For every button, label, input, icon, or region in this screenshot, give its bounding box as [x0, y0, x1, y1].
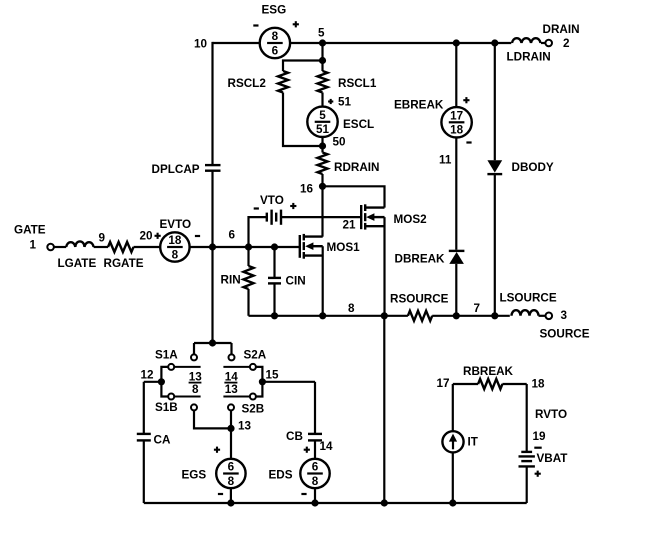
wire node15 down to CB [314, 382, 316, 434]
svg-text:51: 51 [338, 96, 352, 109]
svg-text:CA: CA [154, 434, 171, 447]
junction node 50 [319, 143, 325, 149]
label VBAT [537, 452, 569, 465]
wire RSOURCE to LSOURCE [432, 315, 510, 317]
svg-text:19: 19 [533, 430, 547, 443]
wire RGATE to EVTO [134, 246, 161, 248]
svg-text:RBREAK: RBREAK [463, 365, 514, 378]
node 18 label [532, 378, 546, 391]
wire EBREAK to DBREAK [455, 138, 457, 250]
switch S2B lower contact [228, 404, 234, 410]
junction switch common [209, 340, 215, 346]
wire switch common bar [194, 342, 232, 344]
label CB [286, 430, 303, 443]
wire LGATE to RGATE [94, 246, 108, 248]
wire node8 rail [249, 315, 408, 317]
minus of EGS [218, 493, 223, 495]
current source IT [442, 431, 463, 452]
svg-text:MOS1: MOS1 [327, 241, 361, 254]
junction rail-it [450, 500, 456, 506]
svg-text:LDRAIN: LDRAIN [507, 51, 551, 64]
wire node16 to MOS2 drain [323, 186, 385, 207]
switch S1A contact [191, 354, 197, 360]
wire VTO minus to node6 [249, 217, 267, 247]
label VTO [260, 194, 284, 207]
node GATE labels [14, 224, 46, 252]
junction node6-cin [271, 244, 277, 250]
node 12 label [141, 369, 155, 382]
wire node15 to CB [262, 381, 315, 383]
op-amp EGS (E source 6/8) [216, 459, 245, 488]
svg-text:EBREAK: EBREAK [394, 99, 444, 112]
wire RDRAIN to node16 [321, 174, 323, 186]
svg-text:6: 6 [229, 229, 236, 242]
junction node6-dplcap [209, 244, 215, 250]
diode DBREAK [449, 251, 465, 264]
capacitor CIN [268, 278, 281, 284]
wire CIN to node8 [273, 283, 275, 315]
wire ESCL to RDRAIN [321, 137, 323, 153]
svg-text:5: 5 [318, 27, 325, 40]
resistor RSOURCE [408, 311, 432, 321]
svg-text:14: 14 [320, 440, 334, 453]
svg-text:14: 14 [225, 371, 239, 384]
wire CB to EDS [314, 440, 316, 459]
wire bottom rail [144, 502, 527, 504]
wire LSOURCE to terminal [539, 315, 546, 317]
minus of EDS [301, 493, 306, 495]
junction node8-cin [271, 313, 277, 319]
svg-text:21: 21 [343, 219, 357, 232]
label MOS1 [327, 241, 361, 254]
wire VBAT to rail [526, 466, 528, 503]
wire node6 to CIN [273, 247, 275, 278]
junction node6-rin [245, 244, 251, 250]
svg-text:8: 8 [272, 30, 279, 43]
label DBREAK [395, 253, 446, 266]
svg-text:2: 2 [563, 37, 570, 50]
junction node7-dbreak [453, 313, 459, 319]
terminal SOURCE pin 3 [546, 313, 553, 320]
wire RBREAK to node18 [502, 383, 526, 385]
minus of ESG [253, 24, 258, 26]
wire EDS to rail [314, 488, 316, 503]
svg-text:9: 9 [99, 232, 106, 245]
node 11 label [439, 154, 452, 167]
wire S1A drop [193, 343, 195, 354]
wire IT to rail [452, 452, 454, 503]
label ESCL [343, 118, 374, 131]
battery VTO [267, 210, 281, 225]
switch S2A pole [250, 364, 256, 370]
svg-text:RVTO: RVTO [535, 408, 567, 421]
switch control 13/8 [189, 371, 203, 396]
svg-text:RSCL2: RSCL2 [228, 77, 267, 90]
svg-text:RSOURCE: RSOURCE [390, 293, 449, 306]
svg-text:SOURCE: SOURCE [540, 328, 590, 341]
label DPLCAP [152, 163, 200, 176]
wire node18 down to VBAT [526, 384, 528, 452]
capacitor CB [308, 434, 322, 441]
plus of VTO [290, 203, 296, 209]
svg-text:10: 10 [194, 38, 208, 51]
label CA [154, 434, 171, 447]
junction rail-eds [312, 500, 318, 506]
wire mos2 rail to bottom [383, 316, 385, 503]
junction node7-dbody [492, 313, 498, 319]
wire node16 to MOS1 drain [321, 186, 323, 236]
switch S1B lower contact [191, 404, 197, 410]
svg-text:18: 18 [532, 378, 546, 391]
svg-text:RSCL1: RSCL1 [338, 77, 377, 90]
wire node6 to RIN [247, 247, 249, 266]
svg-text:VBAT: VBAT [537, 452, 569, 465]
junction node 15 [259, 379, 265, 385]
svg-text:GATE: GATE [14, 224, 46, 237]
svg-text:EDS: EDS [269, 469, 293, 482]
svg-text:8: 8 [312, 475, 319, 488]
wire EVTO to MOS1 gate (node 6) [190, 246, 300, 248]
svg-text:12: 12 [141, 369, 155, 382]
op-amp ESG (E source 8/6) [260, 28, 290, 58]
svg-text:EGS: EGS [182, 469, 207, 482]
wire S2A drop [230, 343, 232, 354]
label IT [468, 436, 479, 449]
switch S2A contact [229, 354, 235, 360]
node 10 label [194, 38, 208, 51]
battery VBAT [519, 452, 535, 467]
diode DBODY [487, 160, 502, 174]
junction node 5 [319, 40, 325, 46]
op-amp EDS (E source 6/8) [300, 459, 329, 488]
label S2B [242, 403, 265, 416]
svg-text:18: 18 [450, 124, 464, 137]
node 13 label [238, 420, 252, 433]
label RSCL2 [228, 77, 267, 90]
resistor RSCL2 [278, 71, 288, 93]
junction node8-mos1 [320, 313, 326, 319]
svg-text:6: 6 [312, 461, 319, 474]
plus of VBAT [535, 471, 541, 477]
label CIN [286, 275, 306, 288]
node 19 label [533, 430, 547, 443]
minus of EBREAK [466, 141, 471, 143]
label RBREAK [463, 365, 514, 378]
wire node10 vertical to DPLCAP [211, 42, 213, 165]
wire VTO plus to MOS2 gate [281, 216, 360, 218]
svg-text:8: 8 [348, 302, 355, 315]
label RSCL1 [338, 77, 377, 90]
junction drain-ebreak [453, 40, 459, 46]
junction node 13 [228, 425, 234, 431]
svg-text:6: 6 [228, 461, 235, 474]
switch S2B blade [223, 396, 249, 398]
wire node17 down to IT [452, 384, 454, 431]
wire node17 to RBREAK [453, 383, 478, 385]
switch S2B pole [250, 394, 256, 400]
svg-text:13: 13 [189, 371, 203, 384]
node 9 label [99, 232, 106, 245]
svg-text:17: 17 [437, 377, 450, 390]
svg-text:8: 8 [172, 248, 179, 261]
junction rail-egs [228, 500, 234, 506]
label RVTO [535, 408, 567, 421]
svg-text:VTO: VTO [260, 194, 284, 207]
wire RSCL1 to ESCL [321, 93, 323, 107]
svg-text:ESCL: ESCL [343, 118, 374, 131]
svg-text:20: 20 [140, 230, 154, 243]
resistor RDRAIN [318, 153, 328, 175]
plus of EBREAK [463, 97, 469, 103]
node DRAIN labels [543, 23, 580, 50]
label EGS [182, 469, 207, 482]
svg-text:RGATE: RGATE [104, 257, 144, 270]
svg-text:50: 50 [333, 136, 347, 149]
op-amp ESCL (E source 5/51) [307, 107, 337, 137]
wire gate terminal to LGATE [54, 246, 66, 248]
svg-text:11: 11 [439, 154, 452, 167]
wire RSCL2 to node 50 [283, 93, 321, 147]
svg-text:5: 5 [319, 109, 326, 122]
svg-text:15: 15 [266, 369, 280, 382]
switch control 14/13 [224, 371, 238, 396]
switch S1B blade [174, 396, 200, 398]
label RGATE [104, 257, 144, 270]
svg-text:IT: IT [468, 436, 479, 449]
plus and node 51 of ESCL [328, 96, 351, 109]
node 8 label [348, 302, 355, 315]
svg-text:DBREAK: DBREAK [395, 253, 446, 266]
junction rail-mos2 [381, 500, 387, 506]
node 5 label [318, 27, 325, 40]
wire RIN to node8 [247, 289, 249, 316]
svg-text:CIN: CIN [286, 275, 306, 288]
label DBODY [512, 161, 554, 174]
svg-text:ESG: ESG [262, 4, 287, 17]
label EDS [269, 469, 293, 482]
label EVTO [160, 218, 192, 231]
label RSOURCE [390, 293, 449, 306]
wire EGS to rail [230, 488, 232, 503]
op-amp EBREAK (E source 17/18) [441, 107, 471, 137]
wire DBODY to node7 [494, 174, 496, 316]
plus of ESG [293, 21, 299, 27]
capacitor CA [137, 434, 151, 441]
switch S1A pole [168, 364, 174, 370]
svg-text:1: 1 [30, 239, 37, 252]
op-amp EVTO (E source 18/8) [160, 232, 189, 261]
svg-text:8: 8 [192, 383, 199, 396]
svg-text:EVTO: EVTO [160, 218, 192, 231]
label EBREAK [394, 99, 444, 112]
svg-text:7: 7 [474, 302, 481, 315]
junction node 12 [158, 379, 164, 385]
wire MOS1 source to node8 [322, 246, 324, 316]
minus of VTO [254, 207, 259, 209]
node 21 label [343, 219, 357, 232]
node 50 label [333, 136, 347, 149]
wire node5 down [321, 43, 323, 71]
resistor RGATE [108, 242, 134, 252]
svg-text:51: 51 [316, 123, 330, 136]
wire LDRAIN to terminal [541, 42, 546, 44]
svg-text:S2B: S2B [242, 403, 265, 416]
minus of VBAT [534, 447, 541, 449]
inductor LSOURCE [512, 310, 539, 316]
switch S1B pole [168, 394, 174, 400]
wire node10 to ESG [213, 42, 260, 44]
svg-text:S1B: S1B [155, 401, 178, 414]
transistor MOS1 [300, 234, 323, 259]
svg-text:DPLCAP: DPLCAP [152, 163, 200, 176]
label LGATE [58, 257, 97, 270]
wire MOS2 source to node8 [383, 217, 385, 316]
inductor LGATE [66, 241, 93, 247]
wire node12 bar [161, 367, 168, 397]
svg-text:3: 3 [561, 309, 568, 322]
wire S1B contact to node13 [194, 411, 231, 429]
junction node8-mos2 [381, 313, 387, 319]
label RDRAIN [334, 161, 379, 174]
wire node12 to CA [144, 381, 162, 383]
svg-text:13: 13 [238, 420, 252, 433]
svg-text:13: 13 [225, 383, 239, 396]
wire S2B contact to EGS [230, 411, 232, 459]
svg-text:S2A: S2A [244, 349, 267, 362]
svg-text:MOS2: MOS2 [394, 213, 428, 226]
inductor LDRAIN [512, 38, 541, 43]
transistor MOS2 [361, 204, 384, 229]
wire DPLCAP to switch bar [211, 171, 213, 343]
wire CA to rail [143, 440, 145, 503]
svg-text:DRAIN: DRAIN [543, 23, 580, 36]
svg-text:S1A: S1A [155, 349, 178, 362]
svg-text:6: 6 [272, 44, 279, 57]
resistor RIN [244, 266, 254, 289]
minus of EVTO [195, 235, 200, 237]
node 20 and plus of EVTO [140, 230, 161, 243]
svg-text:18: 18 [168, 234, 182, 247]
terminal DRAIN pin 2 [545, 40, 552, 47]
junction drain-dbody [492, 40, 498, 46]
wire drain to DBODY [494, 43, 496, 160]
svg-text:8: 8 [228, 475, 235, 488]
label S2A [244, 349, 267, 362]
plus of EGS [214, 447, 220, 453]
svg-text:LSOURCE: LSOURCE [500, 292, 557, 305]
wire ESG to LDRAIN [290, 42, 511, 44]
junction node5-rscl2 [319, 57, 325, 63]
node 16 label [300, 183, 314, 196]
node SOURCE labels [540, 309, 590, 341]
switch S2A blade [223, 366, 249, 368]
svg-text:16: 16 [300, 183, 314, 196]
switch S1A blade [174, 366, 200, 368]
node 6 label [229, 229, 236, 242]
wire drain to EBREAK [455, 43, 457, 107]
junction node 16 [319, 183, 325, 189]
wire node12 down to CA [143, 382, 145, 434]
svg-text:RIN: RIN [221, 274, 241, 287]
svg-text:RDRAIN: RDRAIN [334, 161, 379, 174]
wire rscl2 branch [283, 61, 323, 72]
node 17 label [437, 377, 450, 390]
label S1A [155, 349, 178, 362]
svg-text:LGATE: LGATE [58, 257, 97, 270]
label MOS2 [394, 213, 428, 226]
plus of EDS [304, 447, 310, 453]
wire DBREAK to node7 [455, 264, 457, 316]
resistor RBREAK [478, 379, 502, 389]
node 7 label [474, 302, 481, 315]
node 15 label [266, 369, 280, 382]
label LSOURCE [500, 292, 557, 305]
svg-text:CB: CB [286, 430, 303, 443]
label S1B [155, 401, 178, 414]
wire node15 bar [256, 367, 263, 397]
label RIN [221, 274, 241, 287]
node 14 label [320, 440, 334, 453]
label ESG [262, 4, 287, 17]
svg-text:17: 17 [450, 109, 463, 122]
terminal GATE pin 1 [47, 244, 54, 251]
svg-text:DBODY: DBODY [512, 161, 554, 174]
capacitor DPLCAP [205, 165, 221, 171]
resistor RSCL1 [318, 71, 328, 93]
label LDRAIN [507, 51, 551, 64]
